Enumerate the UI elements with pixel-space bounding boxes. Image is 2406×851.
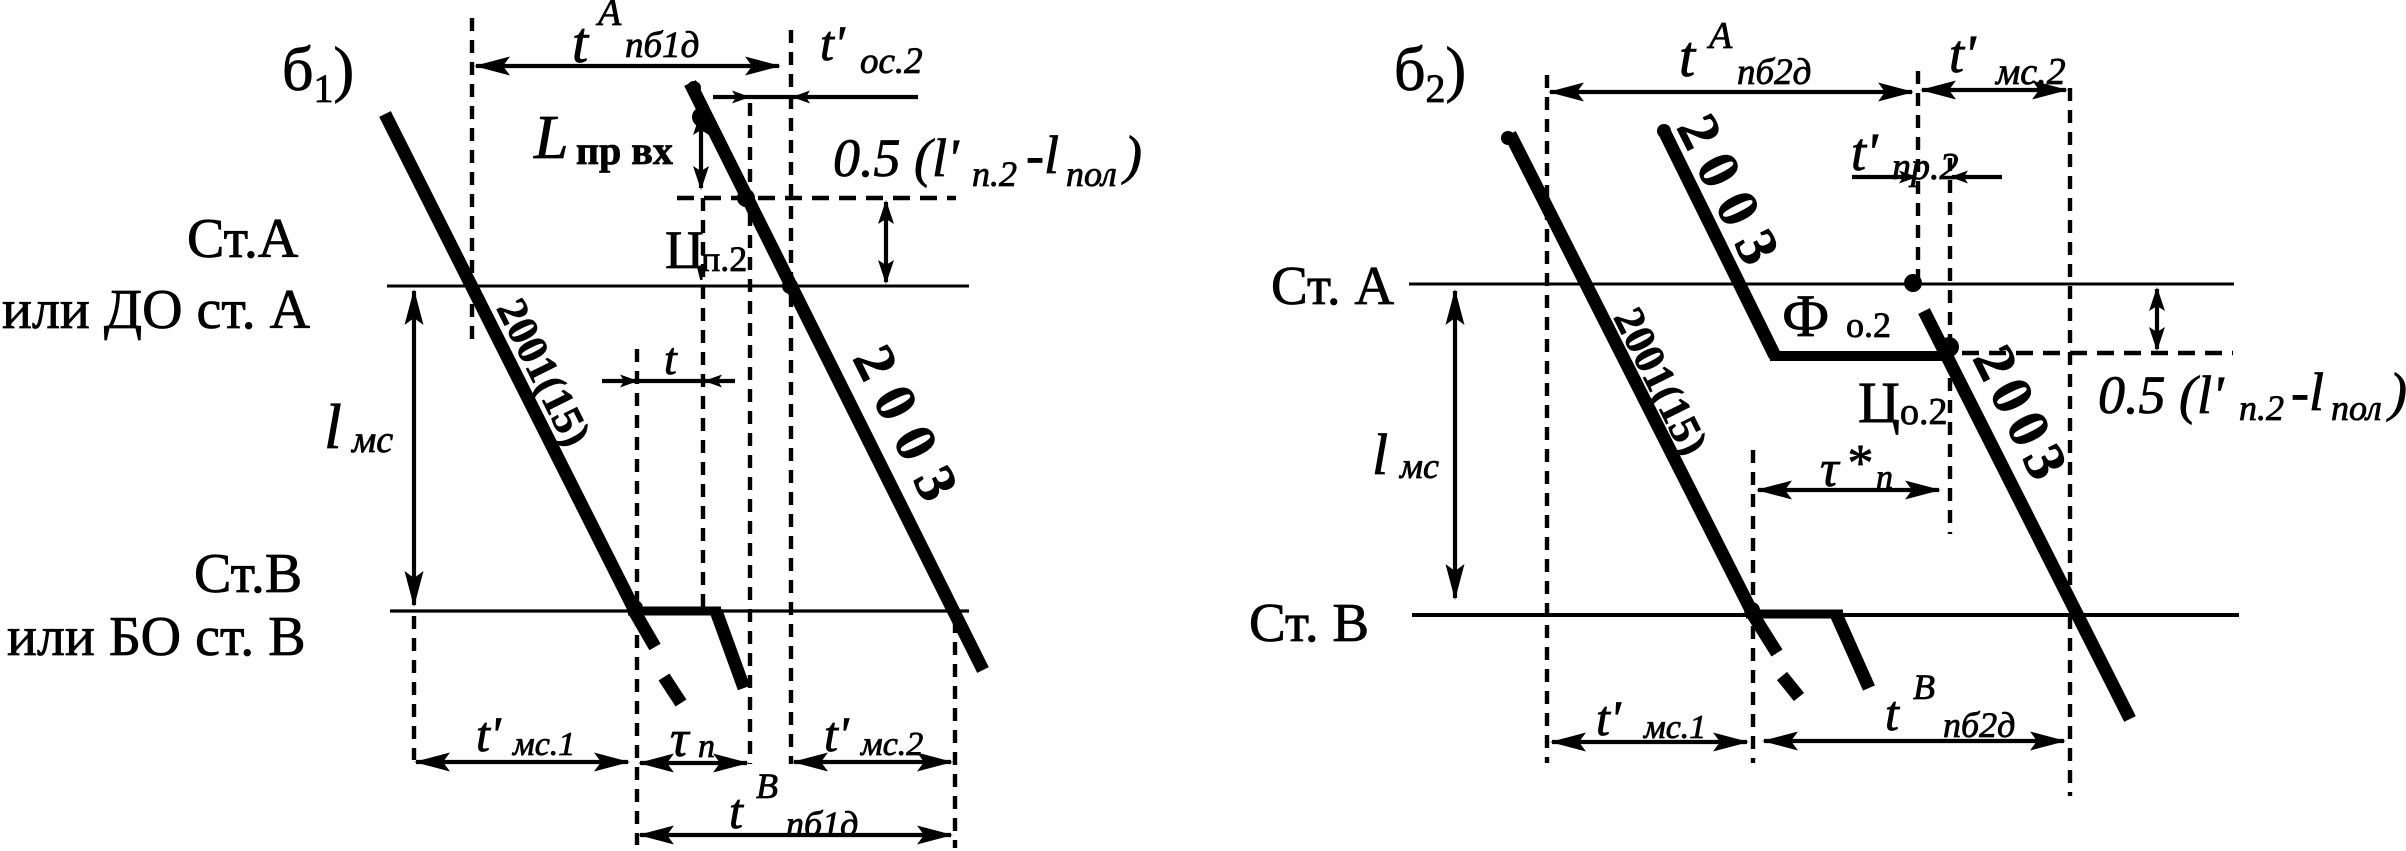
dot 2003 crossing St.A left: [782, 278, 798, 294]
dashed vertical x1918 right: [1916, 71, 1920, 280]
svg-text:пол: пол: [2331, 388, 2382, 428]
station line St.B right: [1412, 613, 2239, 617]
station line St.B left: [390, 609, 969, 612]
train line 2003 left: [690, 83, 983, 670]
svg-text:пб1д: пб1д: [625, 25, 699, 66]
dot 2001 arrival St.B right: [1744, 602, 1760, 618]
svg-text:мс.1: мс.1: [1643, 709, 1706, 746]
svg-text:t': t': [476, 706, 502, 762]
svg-text:t: t: [664, 333, 678, 384]
svg-text:пб2д: пб2д: [1943, 705, 2015, 745]
dimension tau_p left: [638, 754, 749, 773]
svg-text:или ДО ст. А: или ДО ст. А: [2, 279, 311, 341]
svg-text:t': t': [820, 15, 846, 71]
svg-text:-l: -l: [2291, 362, 2324, 422]
stop segment 2001 at St.B left: [628, 607, 721, 616]
dashed vertical x1753 right: [1751, 450, 1755, 763]
svg-text:Ф: Ф: [1782, 283, 1829, 349]
dimension t'ms.1 right: [1550, 733, 1749, 752]
svg-text:п: п: [1876, 459, 1893, 496]
svg-text:B: B: [756, 766, 778, 806]
departure line 2001 from St.B right: [1836, 614, 1869, 688]
svg-text:t: t: [1679, 24, 1697, 89]
dimension 0.5 vertical right: [2149, 287, 2165, 351]
svg-text:t: t: [572, 10, 590, 75]
svg-text:пр вх: пр вх: [576, 128, 673, 173]
svg-text:мс.2: мс.2: [1994, 51, 2066, 93]
svg-text:пб1д: пб1д: [786, 804, 858, 844]
dashed horizontal y198 left: [677, 196, 956, 201]
dot top tip 2001 right: [1501, 131, 1515, 145]
svg-text:пр.2: пр.2: [1892, 146, 1959, 188]
svg-text:l: l: [1372, 422, 1388, 487]
dot top tip 2003 right: [1657, 124, 1671, 138]
dimension tB_pb2d right: [1762, 732, 2066, 751]
train line 2001(15) right: [1510, 134, 1799, 697]
dimension t'ms.1 left: [414, 753, 630, 772]
dimension t'pr.2 right: [1852, 171, 2002, 184]
svg-text:о.2: о.2: [1846, 305, 1891, 345]
dashed vertical x2070 right: [2068, 88, 2072, 796]
dashed vertical x472 left: [470, 18, 474, 342]
dimension tau*p right: [1756, 481, 1941, 500]
dot Ts.p2 on 2003 left: [737, 189, 755, 207]
dimension tB_pb1d left: [638, 826, 953, 845]
svg-text:или БО ст. В: или БО ст. В: [7, 606, 306, 668]
svg-text:Ст.А: Ст.А: [187, 208, 299, 270]
svg-text:t': t': [1851, 122, 1879, 182]
dot on 2003 upper left: [692, 107, 712, 127]
dimension t'ms.2 right: [1920, 81, 2068, 100]
svg-text:0.5 (l': 0.5 (l': [2098, 365, 2225, 425]
svg-text:τ: τ: [1820, 441, 1841, 498]
stop segment 2001 at St.B right: [1746, 610, 1843, 619]
svg-text:τ: τ: [670, 711, 691, 768]
svg-text:*: *: [1845, 435, 1871, 492]
dimension 0.5 vertical left: [878, 200, 894, 284]
dimension t'os.2 left: [713, 91, 918, 104]
svg-text:0.5 (l': 0.5 (l': [833, 128, 960, 188]
dimension t'ms.2 left: [792, 753, 953, 772]
dimension l_ms right: [1446, 289, 1465, 600]
svg-text:t: t: [1885, 685, 1900, 741]
svg-text:пб2д: пб2д: [1737, 52, 1811, 93]
dashed vertical x637 left: [635, 349, 639, 845]
dashed vertical x703 left: [701, 198, 705, 611]
svg-text:Ц: Ц: [1858, 370, 1900, 435]
svg-text:t': t': [1949, 24, 1977, 84]
station line St.A left: [387, 285, 969, 288]
stop segment 2003 right: [1770, 351, 1947, 361]
svg-text:Ц: Ц: [665, 220, 704, 280]
svg-text:мс.1: мс.1: [512, 726, 575, 763]
svg-text:мс.2: мс.2: [860, 726, 923, 763]
svg-text:п.2: п.2: [972, 154, 1017, 194]
departure line 2001 from St.B left: [716, 611, 744, 688]
station line St.A right: [1409, 283, 2234, 286]
svg-text:п: п: [698, 728, 715, 765]
dashed vertical x791 left: [789, 30, 793, 764]
dot Ts o.2 right: [1939, 337, 1959, 357]
dashed vertical x955 left: [953, 620, 957, 848]
svg-text:): ): [2386, 362, 2406, 422]
svg-text:мс: мс: [1398, 446, 1439, 486]
dot F o.2 on St.A right: [1904, 274, 1922, 292]
svg-text:п.2: п.2: [701, 239, 747, 279]
svg-text:B: B: [1913, 667, 1935, 707]
train line 2001(15) left: [385, 114, 681, 703]
dashed horizontal y353 right: [1962, 351, 2233, 356]
svg-text:t': t': [1596, 690, 1622, 746]
svg-text:Ст.В: Ст.В: [194, 543, 302, 605]
dimension L pr vh left: [693, 111, 709, 190]
svg-text:t': t': [824, 706, 850, 762]
dimension tA_pb1d left: [474, 57, 781, 76]
svg-text:ос.2: ос.2: [860, 41, 923, 82]
dimension t small left: [602, 375, 735, 388]
dashed vertical x750 left: [748, 103, 752, 764]
dashed vertical x414 left: [412, 616, 416, 760]
svg-text:l: l: [324, 391, 342, 462]
svg-text:о.2: о.2: [1900, 391, 1948, 433]
dashed vertical x1547 right: [1545, 75, 1549, 763]
dimension l_ms left: [405, 289, 424, 607]
svg-text:A: A: [1706, 15, 1733, 57]
svg-text:L: L: [533, 104, 568, 172]
dot 2001 arrival St.B left: [627, 600, 643, 616]
dashed vertical x1950 right: [1948, 158, 1952, 534]
dot top tip 2003 left: [687, 81, 701, 95]
dimension tA_pb2d right: [1548, 83, 1914, 102]
svg-text:t: t: [729, 783, 744, 839]
svg-text:Ст. А: Ст. А: [1271, 255, 1394, 316]
train line 2003 arrival right: [1663, 129, 1775, 356]
svg-text:мс: мс: [350, 419, 393, 461]
svg-text:пол: пол: [1066, 154, 1117, 194]
svg-text:-l: -l: [1026, 125, 1059, 185]
departure line 2003 right: [1924, 311, 2130, 719]
svg-text:): ): [1121, 125, 1142, 185]
svg-text:A: A: [595, 0, 622, 34]
svg-text:Ст. В: Ст. В: [1249, 592, 1369, 653]
svg-text:п.2: п.2: [2239, 388, 2284, 428]
